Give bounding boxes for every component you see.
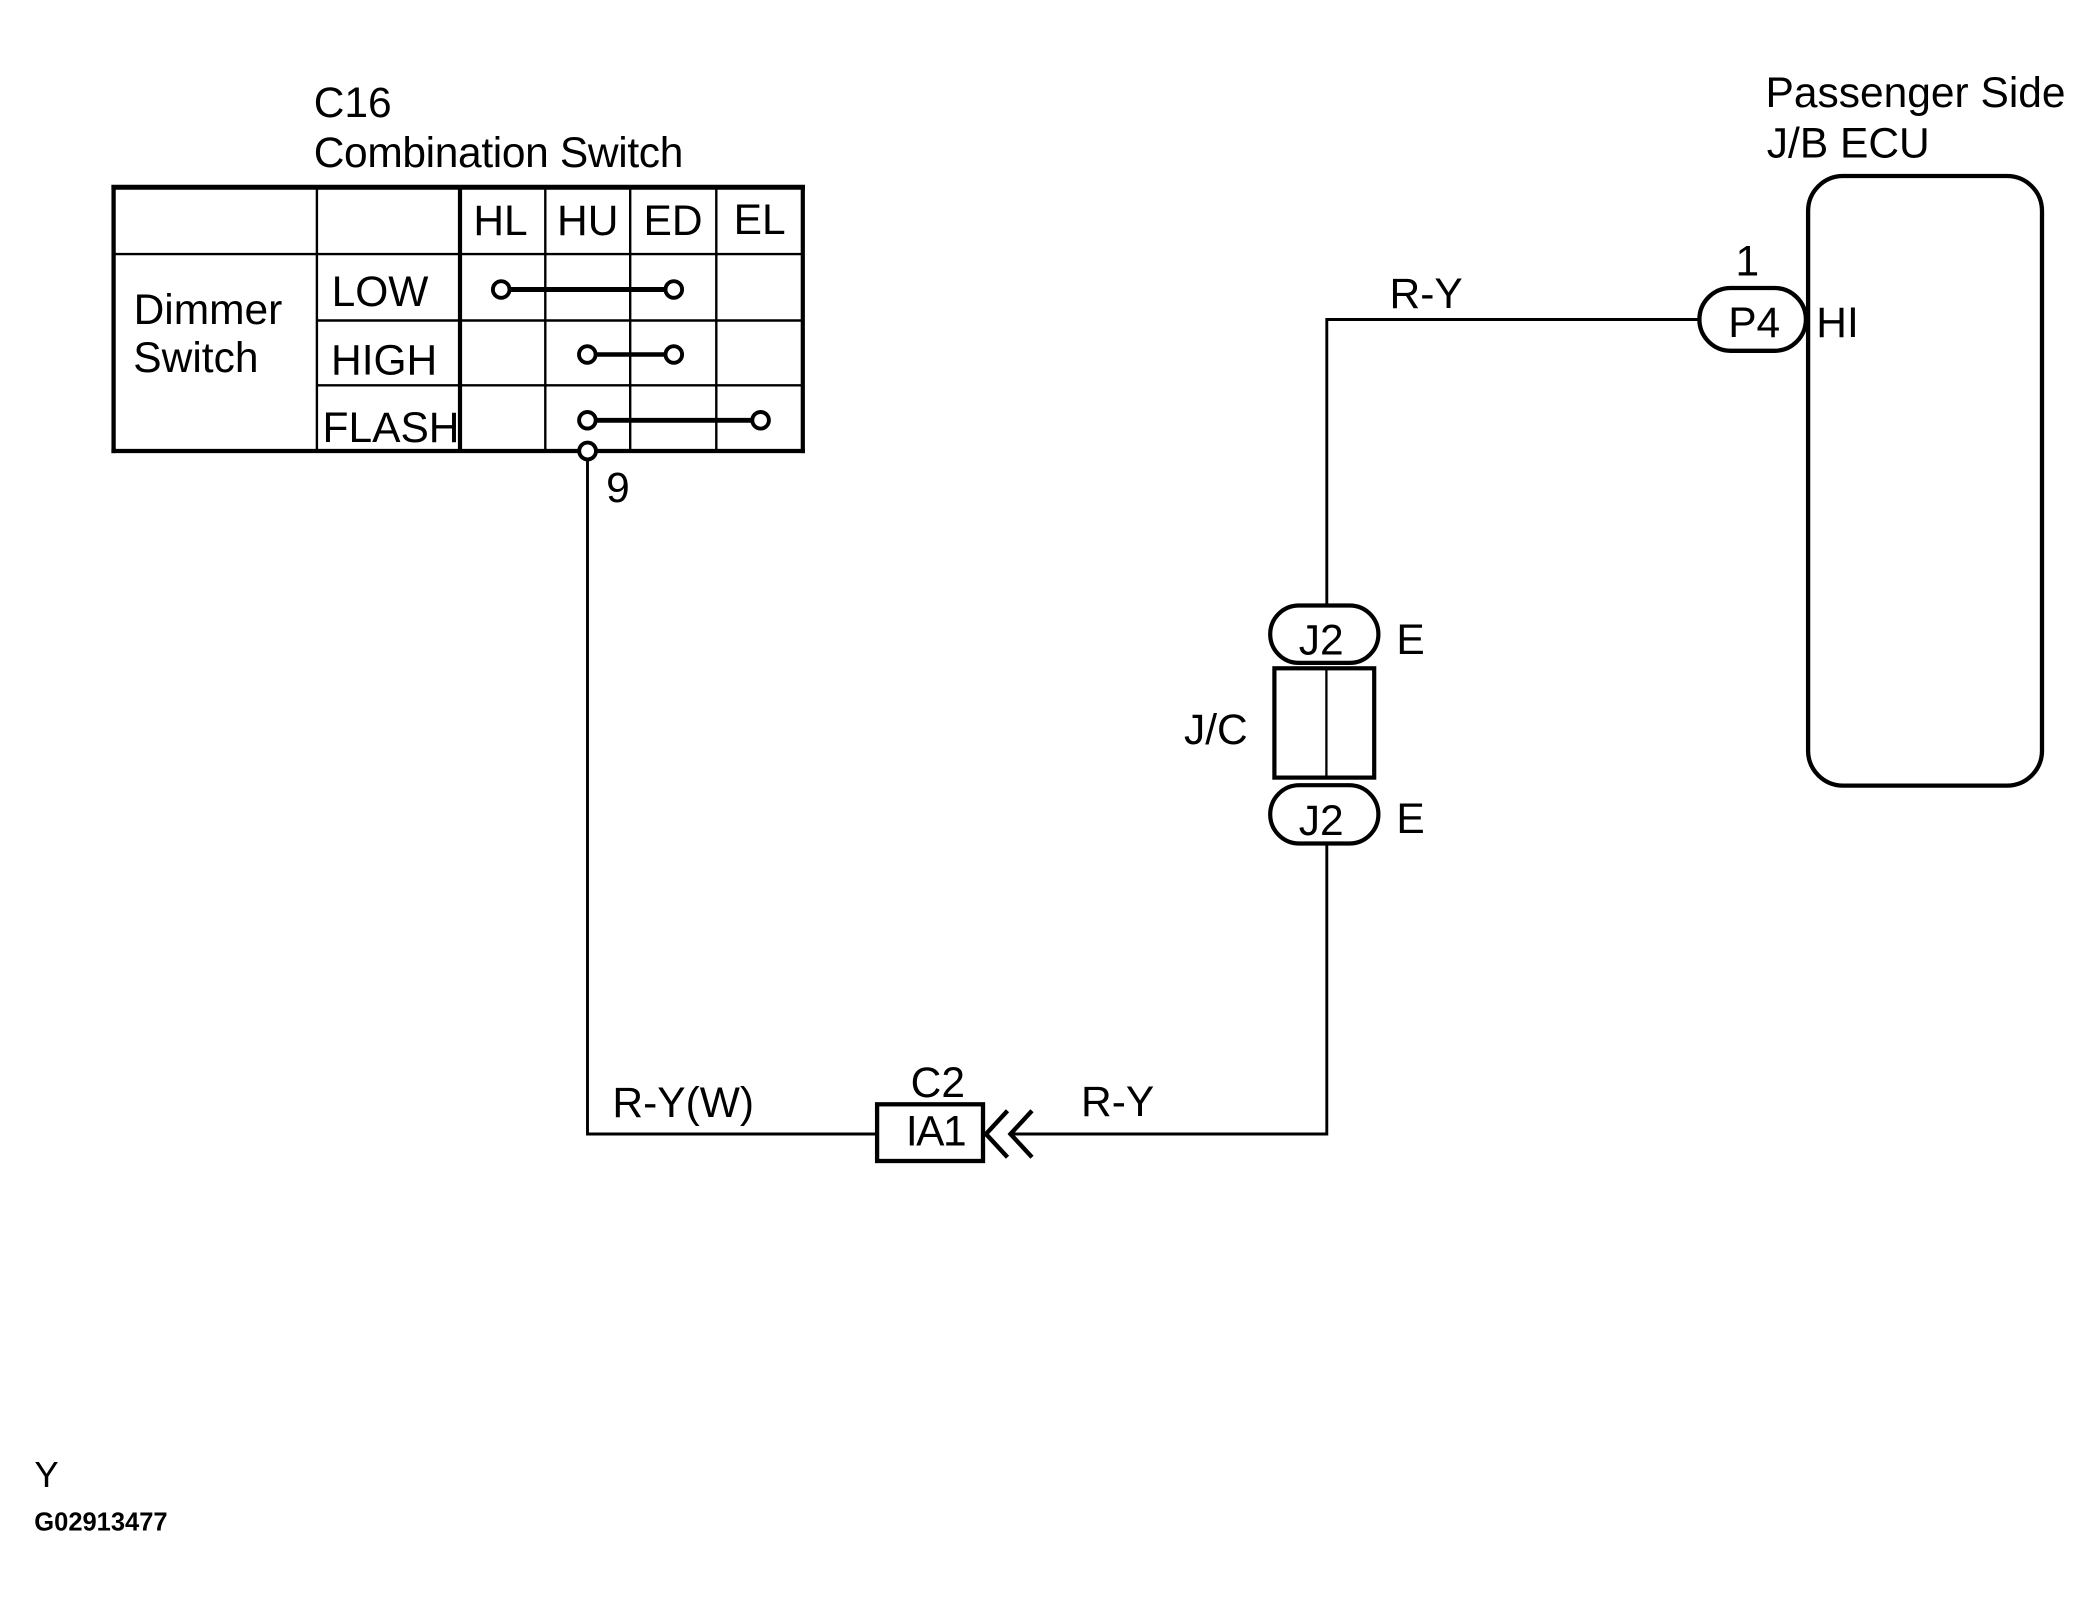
svg-text:HI: HI: [1816, 300, 1859, 347]
svg-text:Dimmer: Dimmer: [134, 287, 283, 334]
svg-text:HU: HU: [557, 198, 618, 245]
svg-text:E: E: [1396, 796, 1424, 843]
svg-text:C2: C2: [911, 1060, 965, 1107]
svg-text:9: 9: [606, 465, 630, 512]
svg-text:ED: ED: [643, 198, 702, 245]
svg-text:EL: EL: [734, 197, 786, 244]
svg-text:C16: C16: [314, 80, 392, 127]
svg-text:R-Y(W): R-Y(W): [612, 1080, 754, 1127]
svg-text:R-Y: R-Y: [1390, 271, 1463, 318]
svg-text:HIGH: HIGH: [331, 337, 437, 384]
svg-text:LOW: LOW: [332, 269, 429, 316]
svg-text:G02913477: G02913477: [34, 1509, 167, 1537]
svg-text:FLASH: FLASH: [323, 405, 460, 452]
svg-text:Passenger Side: Passenger Side: [1766, 70, 2066, 117]
svg-text:J/C: J/C: [1184, 707, 1248, 754]
svg-text:P4: P4: [1728, 300, 1780, 347]
svg-text:J/B ECU: J/B ECU: [1767, 121, 1930, 168]
svg-text:Switch: Switch: [133, 335, 258, 382]
svg-text:1: 1: [1735, 239, 1759, 286]
svg-text:J2: J2: [1299, 618, 1344, 665]
svg-text:E: E: [1396, 617, 1424, 664]
svg-text:Combination Switch: Combination Switch: [314, 130, 683, 177]
svg-text:J2: J2: [1299, 798, 1344, 845]
svg-text:Y: Y: [34, 1454, 58, 1495]
svg-text:R-Y: R-Y: [1081, 1079, 1154, 1126]
svg-text:IA1: IA1: [906, 1109, 965, 1156]
svg-text:HL: HL: [473, 198, 527, 245]
